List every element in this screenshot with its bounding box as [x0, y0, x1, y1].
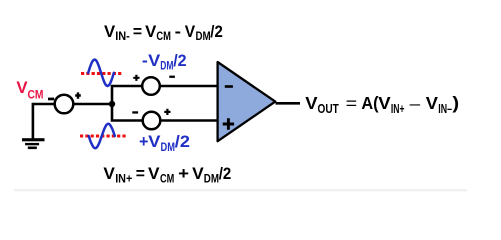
- wire junction down to bottom branch: [112, 103, 143, 121]
- label VOUT equation (right): [305, 93, 459, 116]
- bottom source plus sign (right): [164, 109, 170, 115]
- bottom signal: red dashed baseline: [80, 135, 126, 138]
- V_CM source plus sign: [75, 92, 81, 98]
- label V_CM (red): [16, 78, 43, 101]
- wire from ground up to V_CM source (left corner segment): [33, 104, 55, 139]
- svg-text:IN+: IN+: [115, 172, 132, 186]
- svg-text:V: V: [148, 164, 160, 183]
- svg-text:/2: /2: [173, 51, 186, 70]
- svg-text:V: V: [426, 93, 439, 113]
- op-amp minus symbol: [225, 85, 233, 88]
- svg-text:V: V: [148, 51, 161, 70]
- svg-text:-: -: [175, 23, 181, 41]
- svg-text:IN–: IN–: [438, 102, 452, 116]
- svg-text:DM: DM: [161, 140, 176, 154]
- svg-text:V: V: [16, 78, 28, 97]
- svg-text:+: +: [139, 133, 148, 151]
- svg-text:/2: /2: [210, 22, 223, 41]
- wire bottom source to op-amp plus input: [160, 119, 218, 122]
- label VIN- equation (top): [104, 22, 223, 43]
- op-amp plus symbol: [223, 118, 234, 129]
- svg-text:IN+: IN+: [391, 102, 405, 116]
- svg-text:V: V: [145, 22, 157, 41]
- svg-text:V: V: [148, 132, 161, 151]
- svg-text:/2: /2: [175, 132, 190, 151]
- gray divider line (bottom): [14, 189, 467, 191]
- svg-text:V: V: [305, 93, 318, 113]
- svg-text:+: +: [178, 165, 189, 183]
- svg-text:=: =: [133, 23, 142, 41]
- svg-text:DM: DM: [196, 29, 211, 43]
- svg-text:V: V: [103, 164, 115, 183]
- svg-text:DM: DM: [204, 172, 219, 186]
- svg-text:CM: CM: [156, 29, 171, 43]
- bottom source minus sign (left): [132, 111, 138, 113]
- label +VDM/2 (blue, bottom): [139, 132, 190, 154]
- voltage source V_CM (circle): [55, 95, 74, 114]
- svg-text:OUT: OUT: [318, 102, 340, 116]
- svg-text:-: -: [142, 52, 148, 70]
- svg-text:): ): [452, 93, 459, 113]
- svg-text:=: =: [346, 94, 358, 113]
- top source minus sign (right): [169, 76, 175, 78]
- wire top source to op-amp minus input: [160, 85, 218, 88]
- top signal: blue sine wave: [88, 60, 114, 86]
- top signal: red dashed baseline: [81, 72, 122, 75]
- source -VDM/2 (top circle): [142, 77, 160, 95]
- ground: [22, 138, 45, 149]
- svg-text:DM: DM: [160, 59, 173, 73]
- label VIN+ equation (bottom): [103, 164, 231, 186]
- svg-text:IN-: IN-: [115, 29, 130, 43]
- source +VDM/2 (bottom circle): [143, 112, 161, 130]
- svg-text:–: –: [410, 94, 421, 113]
- op-amp U1 (triangle): [218, 62, 276, 141]
- top source plus sign (left): [133, 75, 139, 81]
- svg-text:CM: CM: [28, 87, 44, 101]
- svg-text:V: V: [378, 93, 391, 113]
- svg-text:V: V: [185, 22, 196, 41]
- wire junction up to top branch: [112, 86, 143, 105]
- V_CM source minus sign: [48, 98, 54, 101]
- svg-text:CM: CM: [160, 172, 174, 186]
- bottom signal: blue sine wave (inverted): [89, 124, 115, 148]
- svg-text:A(: A(: [361, 93, 378, 113]
- wire from V_CM source to junction node: [73, 103, 112, 106]
- svg-text:=: =: [136, 165, 145, 183]
- label -VDM/2 (blue, top): [142, 51, 187, 73]
- svg-text:V: V: [104, 22, 116, 41]
- svg-text:V: V: [192, 164, 204, 183]
- svg-text:/2: /2: [219, 164, 232, 183]
- junction node (dot): [109, 101, 115, 107]
- output wire: [276, 102, 301, 105]
